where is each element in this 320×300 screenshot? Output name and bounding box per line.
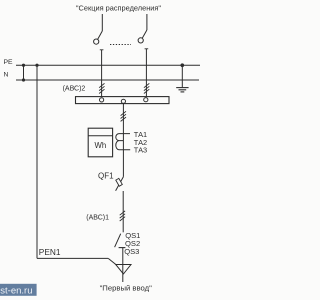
junction dot N jumper [22,78,25,81]
svg-text:(АВС)1: (АВС)1 [86,214,109,221]
fixed contact tick left [100,49,104,51]
wire right feeder drop from section bus [146,14,148,30]
meter Wh box [88,128,112,157]
svg-text:Wh: Wh [95,141,107,150]
busbar terminal circle right [144,98,148,102]
junction dot PEN tap [35,64,38,67]
fixed contact tick right [145,48,149,50]
wire main outgoing feeder upper [122,104,124,177]
wire earth drop [181,65,183,87]
svg-text:ТА3: ТА3 [134,146,147,155]
wire main outgoing feeder lower [122,191,124,232]
switch blade right incoming [142,30,147,38]
plug contact circle right [138,38,143,43]
svg-text:QS3: QS3 [124,247,139,256]
cable entry arrow [116,265,131,275]
wire right below switch to busbar [145,49,147,97]
busbar terminal circle middle [121,99,125,103]
svg-text:(АВС)2: (АВС)2 [63,85,86,92]
PE bus line [16,64,200,66]
svg-text:QF1: QF1 [98,171,114,180]
svg-text:"Секция распределения": "Секция распределения" [76,3,162,12]
disconnector QS fixed contact bar [119,247,126,249]
wire left feeder drop from section bus [101,14,103,31]
three-phase marks outgoing feeder [121,111,126,121]
wire left below switch to busbar [101,50,103,97]
jumper PE to N [23,65,25,80]
wire PEN riser (left vertical) [36,65,38,258]
switch blade left incoming [98,31,103,39]
disconnector QS blade [115,234,121,248]
dotted tie between incoming switches [110,44,131,46]
svg-text:PE: PE [4,59,14,66]
svg-text:PEN1: PEN1 [39,247,61,257]
busbar terminal circle left [100,98,104,102]
circuit breaker QF1 release box [116,178,123,186]
three-phase marks left feeder [99,83,104,93]
wire PEN diagonal to arrow [108,258,116,264]
three-phase marks above QS [120,211,125,221]
svg-text:N: N [4,72,9,79]
svg-text:st-en.ru: st-en.ru [0,285,32,296]
N bus line [16,79,199,81]
watermark st-en.ru [0,284,37,296]
circuit breaker QF1 blade [116,177,124,191]
ground [176,88,188,92]
plug contact circle left [94,39,99,44]
three-phase marks right feeder [144,83,149,93]
junction dot earth tap [181,63,185,67]
wire PEN horizontal run [37,257,108,259]
svg-text:"Первый ввод": "Первый ввод" [100,283,153,292]
junction dot PE jumper [22,64,25,67]
wire below QS through arrow [122,248,124,282]
busbar [76,97,170,104]
current transformers TA1-TA3 [116,134,130,150]
